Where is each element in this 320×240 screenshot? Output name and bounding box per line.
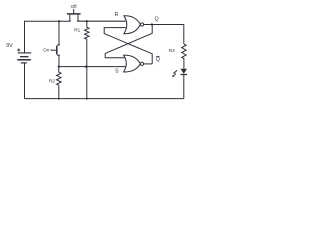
wire top rail right segment to R input of gate — [78, 20, 126, 22]
svg-text:On: On — [43, 48, 50, 53]
wire Qbar output — [144, 63, 153, 65]
switch S1 Off actuator bar — [67, 13, 81, 15]
switch S1 Off terminal dots — [69, 20, 71, 22]
svg-text:S: S — [115, 69, 119, 75]
switch S1 Off pushbutton posts — [70, 15, 78, 22]
wire battery bottom to ground rail — [24, 63, 26, 99]
label Qbar overline — [156, 55, 159, 57]
svg-text:Off: Off — [71, 4, 78, 9]
wire Q corner down to R3 — [183, 24, 185, 44]
wire On branch from rail to switch — [58, 21, 60, 45]
switch S2 On actuator bar — [56, 46, 58, 55]
wire On switch to S node — [58, 55, 60, 66]
node S junction — [58, 66, 60, 68]
wire R2 bottom to ground rail — [58, 86, 60, 99]
svg-text:R3: R3 — [169, 48, 175, 53]
node Q junction — [151, 23, 153, 25]
switch S2 On pushbutton posts — [57, 45, 59, 55]
svg-text:9V: 9V — [6, 43, 13, 49]
wire feedback Q to bottom gate upper input — [105, 25, 152, 58]
svg-text:R2: R2 — [49, 78, 55, 83]
svg-text:R1: R1 — [74, 28, 80, 33]
op-amp U1b NOR gate bottom body — [124, 55, 141, 72]
svg-text:Q: Q — [155, 16, 159, 22]
LED D1 cathode bar — [181, 74, 188, 76]
LED D1 emission arrow 2 — [174, 74, 176, 76]
wire left vertical from rail to battery — [24, 21, 26, 53]
LED D1 triangle — [181, 69, 188, 74]
op-amp U1a NOR gate top body — [124, 16, 140, 34]
svg-text:Q: Q — [156, 57, 160, 63]
node R1 at ground rail — [86, 98, 88, 100]
node R1 tap on top rail — [86, 20, 88, 22]
battery B1 9V plates — [18, 52, 32, 54]
node On branch tap on top rail — [58, 20, 60, 22]
wire bottom ground rail — [25, 98, 184, 100]
resistor R1 — [85, 21, 89, 39]
resistor R2 — [57, 67, 61, 86]
wire R3 to LED — [183, 59, 185, 69]
wire feedback Qbar to top gate lower input — [104, 28, 152, 64]
op-amp U1a NOR gate top bubble — [141, 23, 144, 26]
switch S2 On stem — [50, 49, 56, 51]
wire top rail left segment — [25, 20, 70, 22]
label battery plus — [17, 49, 20, 52]
node R2 at ground rail — [58, 98, 60, 100]
wire LED to ground rail — [183, 75, 185, 99]
wire R1 bottom to ground rail — [86, 40, 88, 99]
arrow on S wire at R1 crossing — [84, 65, 88, 68]
LED D1 emission arrow 1 — [175, 70, 177, 72]
svg-text:R: R — [115, 12, 119, 18]
wire S node to gate S input — [59, 66, 126, 68]
switch S2 On terminal dots — [58, 44, 60, 46]
resistor R3 — [182, 44, 186, 59]
wire Q output — [144, 24, 184, 26]
op-amp U1b NOR gate bottom bubble — [140, 62, 143, 65]
switch S1 Off stem — [73, 9, 75, 14]
